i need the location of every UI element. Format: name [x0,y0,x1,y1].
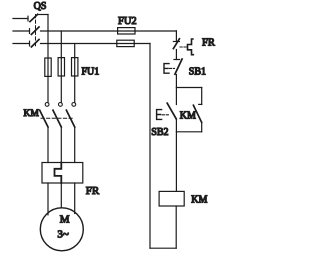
wire: column 2 KM to FR box [60,127,62,163]
wire: control right rail top corner [175,31,177,42]
wire: rail FR contact to SB1 [175,50,177,60]
contactor KM auxiliary contact tick [199,103,202,105]
fuse FU1 element 1 [45,58,51,76]
button SB1 (NC) seat bar [174,59,180,61]
svg-text:QS: QS [34,1,47,12]
wire: column 2 drop from phase 2 to FU1 [60,31,62,58]
wire: column 1 FR box to motor [47,183,49,215]
node L1 terminal bar [27,16,29,21]
wire: hold-in branch bottom run [176,131,201,133]
node L2 terminal bar [29,29,31,34]
wire: phase 2 run fuse right side to corner [135,30,176,32]
coil KM [159,191,184,206]
svg-text:FR: FR [86,185,100,197]
wire: control left rail from FU2-2 down [149,44,151,249]
wire: phase 3 run from QS to FU2 lower fuse [41,43,117,45]
svg-text:SB2: SB2 [151,127,168,138]
button SB2 actuator E [157,110,162,120]
fuse FU1 element 3 [72,58,78,76]
wire through FU2-2 [117,43,134,45]
fuse FU2 element 1 [118,28,135,34]
wire: control bottom run [150,247,176,249]
wire: hold-in branch top run [176,87,201,89]
wire: column 1 KM to FR box [47,127,49,163]
button SB2 dashed link [162,114,169,116]
svg-text:KM: KM [191,195,207,206]
switch QS pole 2 blade [31,27,39,34]
contactor KM main contact 2 blade [53,110,61,127]
relay FR trip symbol [188,39,194,55]
button SB1 dashed link [170,67,175,69]
contactor KM main contact 3 blade [66,110,74,127]
relay contact FR (NC) blade [173,39,179,49]
wire: L3 feed line [13,43,30,45]
wire through fuse 3 [74,58,76,76]
wire through FU2-1 [118,30,135,32]
wire: column 3 drop from phase 3 to FU1 [74,44,76,59]
relay contact FR dashed actuator link [180,46,187,48]
contactor KM main contact 3 fixed circle [72,103,76,107]
switch QS pole 1 blade [30,14,38,21]
relay contact FR (NC) seat bar [173,41,179,43]
wire: column 1 FU1 to KM contact [47,76,49,102]
svg-text:FU2: FU2 [118,16,137,27]
svg-text:3~: 3~ [57,229,69,241]
contactor KM auxiliary contact blade [193,105,201,122]
button SB1 (NC) blade [175,59,182,74]
svg-text:KM: KM [24,109,40,119]
wire: rail SB2 to coil [175,119,177,191]
wire: branch right rail upper [201,88,203,105]
svg-text:M: M [60,214,70,226]
wire through fuse 1 [47,58,49,76]
wire: phase 1 jog from QS blade to column 1 [38,14,48,16]
wire: column 2 FU1 to KM contact [60,76,62,103]
wire: column 3 FR box to motor [74,183,76,214]
fuse FU2 element 2 [117,40,134,46]
svg-text:KM: KM [180,111,196,122]
svg-text:FR: FR [202,37,215,48]
wire: phase 2 run from QS through FU2 corner [41,30,118,32]
node L3 terminal bar [29,41,31,46]
wire: column 3 FU1 to KM contact [74,76,76,103]
wire: L1 feed line [13,18,28,20]
motor M circle [40,208,83,251]
thermal relay FR heater element (middle phase) [55,163,62,184]
contactor KM main contact 1 fixed circle [45,103,49,107]
switch QS linkage (dashed) [35,15,37,48]
wire: column 1 drop from QS to FU1 [47,15,49,59]
wire: column 3 KM to FR box [74,127,76,163]
thermal relay FR heater box [42,163,83,184]
switch QS pole 3 blade [31,40,39,47]
svg-text:SB1: SB1 [189,67,206,78]
wire: L2 feed line [13,30,30,32]
button SB2 (NO) blade [167,103,176,119]
wire: phase 3 run fuse right side to corner [134,43,150,45]
svg-text:FU1: FU1 [82,67,100,78]
button SB1 actuator E [164,64,169,74]
fuse FU1 element 2 [58,58,64,76]
wire: column 2 FR box to motor [60,183,62,208]
contactor KM main contact 1 blade [40,110,48,127]
wire: coil bottom to control bottom [175,206,177,248]
wire: rail SB1 to branch junction to SB2 [175,75,177,105]
contactor KM main contact 2 fixed circle [59,103,63,107]
contactor KM linkage (dashed) [41,117,73,119]
wire: branch right rail lower [201,122,203,132]
wire through fuse 2 [60,58,62,76]
